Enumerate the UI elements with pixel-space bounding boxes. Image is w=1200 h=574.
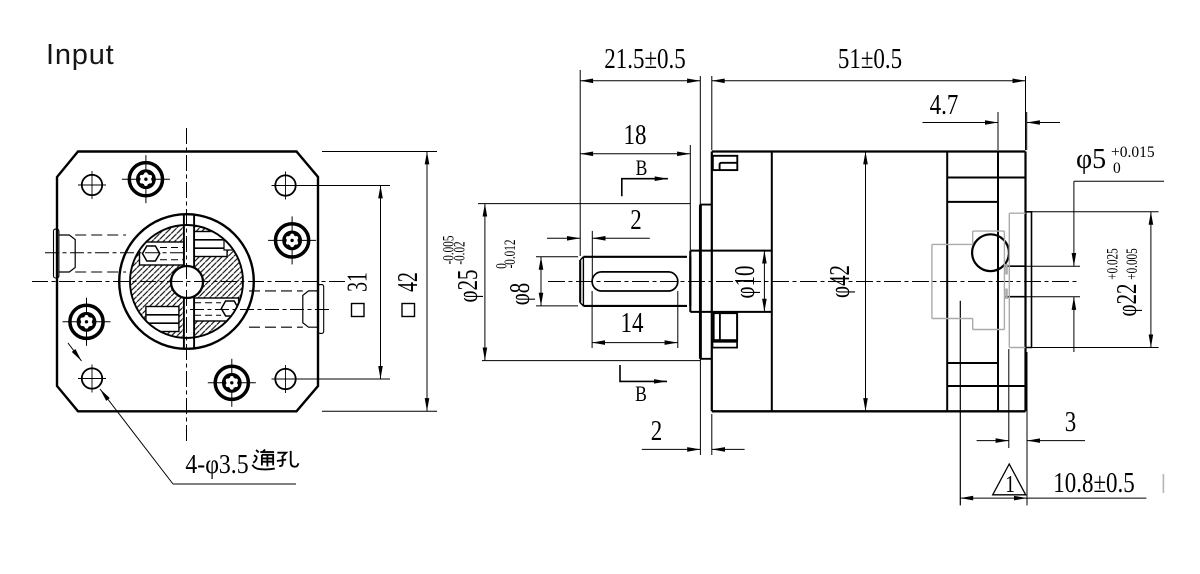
leader 4-phi3.5 line [100, 389, 173, 484]
rear boss lip [1026, 212, 1032, 348]
aux centerline upper-left port [45, 252, 183, 254]
dim 2 collar line [642, 448, 701, 450]
hex bolt top-left [143, 246, 160, 261]
rear band bottom2 [947, 362, 998, 364]
dim 14 extension lines [591, 291, 593, 348]
left port tab [54, 229, 59, 278]
svg-text:φ8: φ8 [504, 283, 536, 305]
body bottom edge [712, 410, 1026, 412]
dim 18 extension right [689, 145, 691, 250]
svg-text:4-φ3.5: 4-φ3.5 [185, 449, 248, 480]
channel side lines [183, 215, 185, 347]
keyway slot [592, 272, 678, 291]
dim 2 collar extensions [699, 359, 701, 455]
aux centerline lower-right port [190, 309, 330, 311]
section mark B upper [622, 179, 668, 197]
dim 4.7 extension lines [997, 112, 999, 150]
hex bolt bottom-right [221, 301, 238, 316]
hex bolt phantom dashes top-left [160, 247, 184, 249]
svg-text:42: 42 [392, 272, 424, 292]
right port plug [303, 291, 319, 327]
center hole [171, 266, 203, 298]
svg-text:Input: Input [46, 39, 115, 71]
white notch top-right edge [224, 236, 241, 250]
dim phi10 line [763, 251, 765, 312]
screw C bottom-left [63, 298, 111, 346]
callout phi5 leader [1074, 180, 1164, 182]
dim 21.5 extension right [699, 76, 701, 205]
svg-text:B: B [636, 156, 648, 180]
corner hole top-right [272, 172, 300, 200]
svg-text:+0.025: +0.025 [1104, 248, 1121, 280]
svg-text:3: 3 [1065, 406, 1076, 438]
phi10 boss bottom line [690, 311, 772, 313]
corner hole bottom-right [272, 365, 300, 393]
svg-text:31: 31 [342, 272, 374, 292]
dim 3 extension lines [1008, 349, 1010, 448]
phi5 extension lines [1027, 265, 1081, 267]
white bar pair bottom-left [146, 307, 179, 332]
shaft chamfer corners [580, 257, 583, 306]
flange plate outline [57, 152, 318, 412]
svg-text:φ5: φ5 [1076, 144, 1106, 175]
dim 31 extension lines [297, 185, 390, 187]
phi5 bore lines [1004, 265, 1026, 267]
dim phi8 extension lines [536, 256, 578, 258]
left port hidden bore dashes [75, 234, 126, 236]
dim 14 line [592, 342, 678, 344]
svg-text:51±0.5: 51±0.5 [838, 43, 902, 75]
top-left clip [713, 156, 738, 170]
dim 4.7 line [923, 122, 999, 124]
dim 42 line [426, 152, 428, 412]
right port hidden bore dashes [249, 290, 303, 292]
dim 21.5 line [580, 80, 700, 82]
svg-text:-0.012: -0.012 [501, 240, 518, 269]
white bar pair top-right [194, 232, 227, 257]
horizontal centerline [32, 281, 348, 283]
dim 31 line [380, 186, 382, 380]
input shaft body [580, 257, 690, 306]
white notch bottom-left edge [132, 323, 149, 337]
hatched gear section disc [131, 226, 243, 338]
right port tab [318, 285, 323, 334]
svg-text:2: 2 [651, 415, 662, 447]
white channel vertical [184, 225, 194, 337]
phi25 disc [700, 205, 711, 359]
svg-text:-0.02: -0.02 [451, 241, 468, 264]
vertical centerline [186, 128, 188, 442]
svg-text:+0.015: +0.015 [1111, 144, 1155, 161]
gray internal gear phantom [932, 213, 1026, 347]
svg-text:B: B [635, 382, 647, 406]
front plate face [711, 152, 713, 412]
svg-text:14: 14 [621, 307, 644, 339]
shaft step face [689, 251, 691, 312]
body top edge [712, 150, 1026, 152]
rear band top1 [947, 177, 1025, 179]
bottom-left tab [714, 313, 738, 340]
svg-text:φ22: φ22 [1111, 284, 1143, 317]
rear internal edge line [959, 301, 961, 506]
dim 10.8 line [960, 497, 1027, 499]
corner hole bottom-left [78, 365, 106, 393]
corner hole top-left [78, 171, 106, 199]
dim 51 line [712, 80, 1026, 82]
dim phi8 line [540, 257, 542, 306]
dim 18 line [580, 153, 690, 155]
dim phi22 extension lines [1032, 211, 1159, 213]
rear cap inner joint [997, 152, 999, 412]
bearing ball circle [972, 234, 1009, 271]
dim 42 square symbol [402, 304, 415, 317]
hanzi tong [252, 450, 274, 470]
svg-text:4.7: 4.7 [930, 89, 959, 121]
dim phi42 line [865, 152, 867, 412]
svg-text:18: 18 [624, 119, 647, 151]
rear band top2 [947, 201, 998, 203]
inner circle [130, 225, 243, 338]
dim phi25 extension lines [478, 203, 690, 205]
svg-text:1: 1 [1005, 470, 1015, 497]
dim 3 line [977, 440, 1009, 442]
white zone top-left with hex [140, 242, 185, 265]
dim 51 extension lines [711, 76, 713, 150]
hanzi kong [277, 451, 298, 467]
rear cap joint [946, 152, 948, 412]
svg-text:+0.005: +0.005 [1123, 248, 1140, 280]
svg-text:0: 0 [1113, 160, 1121, 177]
taper symbol triangle [993, 464, 1026, 495]
screw B top-right [268, 216, 316, 264]
rear face [1024, 152, 1026, 412]
white zone bottom-right with hex [194, 298, 239, 321]
phi10 boss top line [690, 250, 772, 252]
svg-text:2: 2 [630, 204, 641, 236]
left port plug [59, 235, 76, 272]
section mark B lower [620, 365, 667, 381]
dim 2 keyway line [547, 237, 580, 239]
screw D bottom-center [208, 359, 256, 407]
svg-text:φ25: φ25 [452, 270, 484, 303]
dim 31 square symbol [352, 304, 365, 317]
central assembly [119, 214, 254, 349]
dim 42 extension lines [322, 151, 437, 153]
dim 2 keyway extension [591, 231, 593, 281]
stray tick [1162, 474, 1164, 493]
dim 21.5 extension left [579, 70, 581, 256]
svg-text:φ10: φ10 [729, 266, 761, 299]
svg-text:10.8±0.5: 10.8±0.5 [1053, 467, 1134, 499]
rear band bottom1 [947, 385, 1025, 387]
housing front joint [771, 152, 773, 412]
dim phi22 line [1150, 212, 1152, 348]
outer circle [119, 214, 254, 349]
dim phi25 line [484, 204, 486, 361]
svg-text:φ42: φ42 [824, 265, 856, 298]
svg-text:21.5±0.5: 21.5±0.5 [604, 43, 685, 75]
main centerline [548, 281, 1078, 283]
hex bolt phantom dashes bottom-right [194, 302, 221, 304]
screw A top-left [122, 155, 170, 203]
